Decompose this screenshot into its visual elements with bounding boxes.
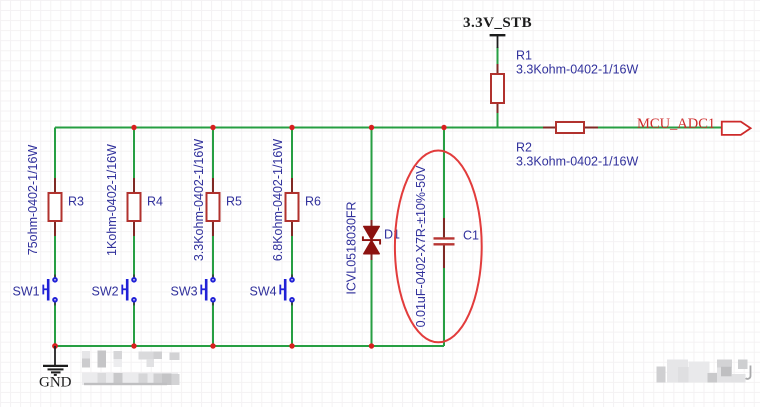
capacitor C1 (414, 165, 479, 327)
svg-text:3.3V_STB: 3.3V_STB (463, 15, 532, 31)
junction top R4 (131, 125, 136, 130)
svg-text:D1: D1 (384, 228, 400, 242)
switch SW4 (250, 275, 295, 306)
wire D1 branch vertical (371, 128, 373, 347)
junction top R5 (210, 125, 215, 130)
junction bottom R5 (210, 343, 215, 348)
svg-text:GND: GND (39, 375, 72, 391)
highlight ellipse around C1 (395, 151, 482, 343)
svg-text:6.8Kohm-0402-1/16W: 6.8Kohm-0402-1/16W (271, 139, 285, 261)
diode D1 (bidirectional TVS) (344, 201, 400, 294)
wire C1 branch vertical (443, 128, 445, 347)
junction top R6 (289, 125, 294, 130)
wire R6 branch vertical (291, 128, 293, 347)
svg-text:75ohm-0402-1/16W: 75ohm-0402-1/16W (26, 145, 40, 256)
svg-text:R4: R4 (147, 195, 163, 209)
junction bottom D1 (369, 343, 374, 348)
svg-text:3.3Kohm-0402-1/16W: 3.3Kohm-0402-1/16W (192, 139, 206, 261)
port connector MCU_ADC1 (722, 122, 751, 135)
svg-text:SW2: SW2 (92, 285, 119, 299)
ground symbol GND (39, 346, 72, 391)
junction top C1 (441, 125, 446, 130)
watermark mosaic bottom-right (657, 360, 751, 383)
watermark mosaic bottom-left (82, 351, 180, 386)
resistor R3 (26, 145, 84, 256)
resistor R4 (105, 144, 163, 256)
svg-text:SW1: SW1 (13, 285, 40, 299)
power symbol 3.3V_STB (463, 15, 532, 48)
junction bottom R6 (289, 343, 294, 348)
junction bottom GND tap (52, 343, 58, 349)
svg-text:ICVL0518030FR: ICVL0518030FR (344, 201, 358, 294)
svg-text:R6: R6 (305, 195, 321, 209)
resistor R1 (491, 49, 638, 114)
svg-text:3.3Kohm-0402-1/16W: 3.3Kohm-0402-1/16W (516, 63, 638, 77)
wire R4 branch vertical (133, 128, 135, 347)
resistor R2 (516, 122, 638, 169)
svg-text:SW4: SW4 (250, 285, 277, 299)
junction bottom R4 (131, 343, 136, 348)
wire top horizontal net (55, 127, 722, 129)
svg-text:1Kohm-0402-1/16W: 1Kohm-0402-1/16W (105, 144, 119, 256)
svg-text:SW3: SW3 (171, 285, 198, 299)
wire R1 branch vertical (497, 47, 499, 128)
svg-text:3.3Kohm-0402-1/16W: 3.3Kohm-0402-1/16W (516, 155, 638, 169)
wire R5 branch vertical (212, 128, 214, 347)
svg-text:R2: R2 (516, 141, 532, 155)
switch SW2 (92, 275, 137, 306)
switch SW3 (171, 275, 216, 306)
svg-text:R5: R5 (226, 195, 242, 209)
wire bottom horizontal (GND net) (55, 345, 444, 347)
junction top D1 (369, 125, 374, 130)
svg-text:R3: R3 (68, 195, 84, 209)
svg-text:MCU_ADC1: MCU_ADC1 (637, 116, 715, 132)
svg-text:C1: C1 (463, 229, 479, 243)
resistor R6 (271, 139, 321, 261)
wire left vertical (R3 branch) (54, 128, 56, 347)
switch SW1 (13, 275, 58, 306)
resistor R5 (192, 139, 242, 261)
svg-text:0.01uF-0402-X7R-±10%-50V: 0.01uF-0402-X7R-±10%-50V (414, 165, 428, 327)
svg-text:R1: R1 (516, 49, 532, 63)
